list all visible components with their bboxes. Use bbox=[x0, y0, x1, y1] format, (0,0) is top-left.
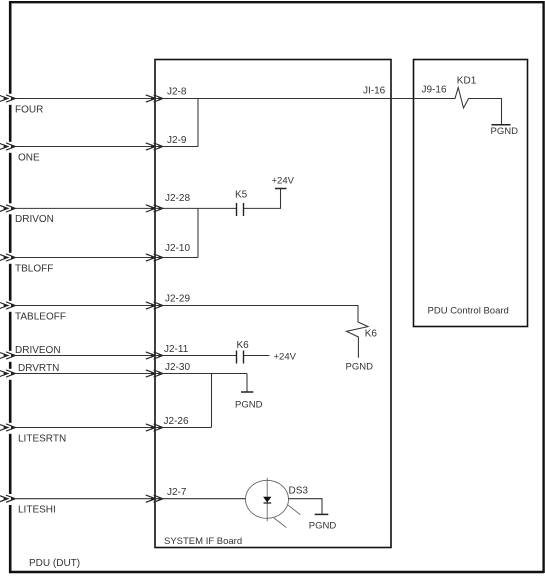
wire ONE input bbox=[16, 146, 155, 148]
wire J2-9 bbox=[155, 146, 198, 148]
wire LITESHI input bbox=[16, 498, 155, 500]
svg-text:J2-8: J2-8 bbox=[167, 87, 187, 98]
wire J2-29 to relay K6 bbox=[155, 306, 358, 323]
input chevron ONE bbox=[0, 143, 16, 150]
svg-text:J2-28: J2-28 bbox=[165, 193, 190, 204]
PDU Control Board box bbox=[414, 60, 528, 327]
wire J2-8 to KD1 bbox=[155, 98, 450, 100]
svg-text:JI-16: JI-16 bbox=[363, 86, 386, 97]
svg-text:KD1: KD1 bbox=[457, 76, 477, 87]
svg-text:FOUR: FOUR bbox=[15, 105, 43, 116]
wire DS3 to ground bbox=[289, 499, 323, 514]
svg-text:PGND: PGND bbox=[491, 126, 519, 137]
outer box left border segments (gaps at input arrows) bbox=[9, 1, 12, 573]
wire J2-30 bbox=[155, 373, 247, 375]
wire node J2-30 to J2-26 vertical bbox=[211, 374, 213, 428]
svg-text:+24V: +24V bbox=[274, 352, 297, 363]
svg-text:PGND: PGND bbox=[235, 400, 263, 411]
wire node J2-8 to J2-9 vertical bbox=[197, 99, 199, 147]
breaker KD1 zigzag bbox=[450, 88, 502, 125]
ground bar PGND (KD1) bbox=[492, 124, 511, 126]
svg-text:J2-26: J2-26 bbox=[164, 416, 189, 427]
wire J2-26 bbox=[155, 427, 212, 429]
svg-text:J2-11: J2-11 bbox=[164, 344, 189, 355]
indicator lamp DS3 bbox=[246, 478, 301, 528]
svg-text:+24V: +24V bbox=[272, 176, 295, 187]
board chevron J2-8 bbox=[146, 95, 163, 102]
svg-text:PGND: PGND bbox=[309, 521, 337, 532]
board chevron J2-7 bbox=[146, 495, 163, 502]
board chevron J2-11 bbox=[146, 352, 163, 359]
svg-text:K5: K5 bbox=[235, 190, 248, 201]
relay contact K6 bbox=[237, 351, 244, 364]
relay coil K6 zigzag bbox=[347, 322, 369, 358]
wire J2-30 to ground bbox=[246, 374, 248, 392]
svg-text:LITESRTN: LITESRTN bbox=[18, 434, 66, 445]
wire J2-10 bbox=[155, 257, 198, 259]
svg-text:J2-9: J2-9 bbox=[167, 135, 187, 146]
svg-text:TABLEOFF: TABLEOFF bbox=[15, 312, 66, 323]
svg-text:TBLOFF: TBLOFF bbox=[15, 264, 53, 275]
board chevron J2-30 bbox=[146, 370, 163, 377]
wire DRVRTN input bbox=[16, 373, 155, 375]
input chevron DRIVON bbox=[0, 205, 16, 212]
svg-text:J2-7: J2-7 bbox=[167, 487, 187, 498]
wire J2-11 to K6 bbox=[155, 355, 236, 357]
wire TABLEOFF input bbox=[16, 305, 155, 307]
svg-text:DRIVON: DRIVON bbox=[15, 214, 54, 225]
ground bar PGND (DS3) bbox=[315, 513, 329, 515]
svg-text:J2-30: J2-30 bbox=[165, 362, 190, 373]
svg-text:J9-16: J9-16 bbox=[422, 85, 447, 96]
SYSTEM IF Board box bbox=[155, 60, 391, 548]
svg-text:J2-10: J2-10 bbox=[165, 243, 190, 254]
ground bar PGND (J2-30) bbox=[241, 391, 253, 393]
wire K5 to +24V bbox=[244, 189, 281, 208]
wire FOUR input bbox=[16, 98, 155, 100]
relay contact K5 bbox=[237, 203, 244, 216]
svg-text:K6: K6 bbox=[365, 329, 378, 340]
board chevron J2-28 bbox=[146, 205, 163, 212]
svg-text:K6: K6 bbox=[237, 340, 250, 351]
board chevron J2-29 bbox=[146, 302, 163, 309]
input chevron TBLOFF bbox=[0, 254, 16, 261]
svg-text:ONE: ONE bbox=[18, 153, 40, 164]
svg-text:J2-29: J2-29 bbox=[165, 294, 190, 305]
wire J2-7 to DS3 bbox=[155, 498, 246, 500]
svg-text:PGND: PGND bbox=[346, 362, 374, 373]
svg-text:SYSTEM IF Board: SYSTEM IF Board bbox=[164, 536, 242, 547]
power +24V rail bar bbox=[275, 188, 287, 190]
wire DRIVEON input bbox=[16, 355, 155, 357]
wire DRIVON input bbox=[16, 207, 155, 209]
input chevron DRIVEON bbox=[0, 352, 16, 359]
svg-text:PDU (DUT): PDU (DUT) bbox=[29, 558, 80, 569]
svg-text:DRVRTN: DRVRTN bbox=[18, 363, 59, 374]
svg-text:DRIVEON: DRIVEON bbox=[15, 345, 61, 356]
wire TBLOFF input bbox=[16, 257, 155, 259]
svg-text:DS3: DS3 bbox=[289, 486, 309, 497]
wire node J2-28 to J2-10 vertical bbox=[197, 208, 199, 257]
svg-text:LITESHI: LITESHI bbox=[18, 505, 56, 516]
input chevron FOUR bbox=[0, 95, 16, 102]
board chevron J2-26 bbox=[146, 424, 163, 431]
input chevron LITESHI bbox=[0, 495, 16, 502]
input chevron TABLEOFF bbox=[0, 302, 16, 309]
svg-text:PDU Control Board: PDU Control Board bbox=[428, 306, 509, 317]
board chevron J2-9 bbox=[146, 143, 163, 150]
input chevron DRVRTN bbox=[0, 370, 16, 377]
wire J2-28 to K5 bbox=[155, 207, 236, 209]
wire LITESRTN input bbox=[16, 427, 155, 429]
input chevron LITESRTN bbox=[0, 424, 16, 431]
board chevron J2-10 bbox=[146, 254, 163, 261]
wire K6 to +24V label bbox=[244, 355, 270, 357]
